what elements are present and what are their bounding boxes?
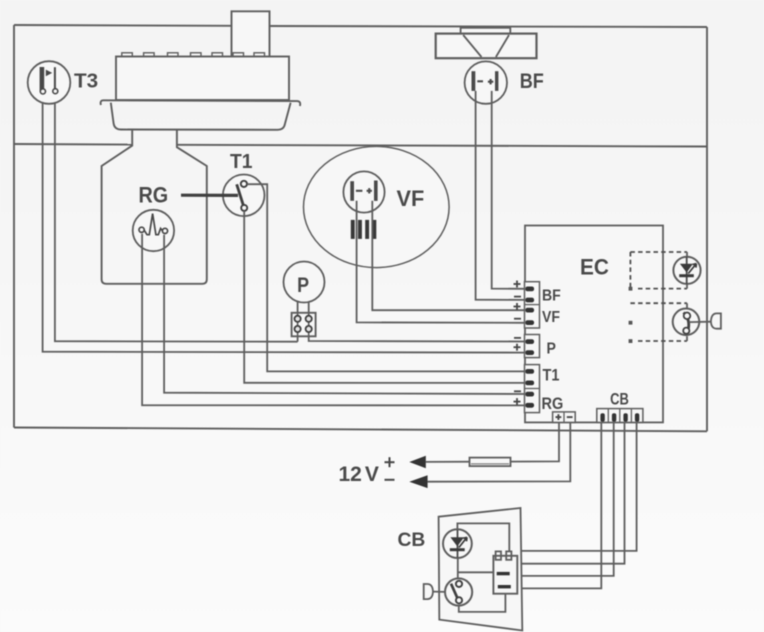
buzzer horn left [424,584,433,599]
control unit EC box [525,226,663,423]
svg-text:BF: BF [520,69,544,93]
svg-text:RG: RG [139,183,169,207]
LED indicator dashed link top [630,251,687,253]
evaporator body [116,57,289,101]
svg-text:P: P [297,274,309,298]
wire LED2 bottom to switch [457,558,459,579]
12V supply connector [553,412,576,423]
fan motor VF [343,171,384,212]
wire RG left to EC RG+ [142,234,525,406]
buzzer switch dashed link top [630,302,687,304]
compartment divider line [14,144,707,147]
pin sign P plus [514,344,521,351]
pin sign VF plus [514,303,521,310]
wire P left lead [297,302,299,313]
alarm switch S1 [673,309,700,336]
wire BF left to EC BF- [476,91,525,300]
fan motor BF [465,61,507,103]
svg-text:BF: BF [542,286,561,304]
LED indicator D1 [673,257,700,284]
pin sign RG plus [514,398,521,405]
wire VF right to EC VF+ [372,201,525,310]
wire CB1 [507,423,637,551]
arrow 12V minus [409,475,427,488]
wire P right lead [308,302,310,313]
control panel CB outline [439,508,523,631]
wire to buzzer [689,321,711,323]
connector block T1/RG [525,365,540,413]
VF vent grille bars [351,220,377,239]
LED indicator dashed link left [629,252,631,289]
sign 12V plus [385,457,395,467]
evaporator chimney [232,11,270,56]
wire CB3 [501,423,614,576]
wire 12V minus [428,422,571,481]
LED indicator D2 [443,529,472,558]
buzzer horn right [711,313,721,328]
node dot [629,321,633,325]
sensor T3 [28,61,71,104]
svg-text:T1: T1 [230,151,252,174]
wire branch to connector [458,571,494,573]
wire P block left down [297,336,299,341]
drip tray body [111,103,291,130]
wire LED bottom [686,284,688,289]
heater RG [133,210,174,251]
svg-text:RG: RG [542,395,564,413]
fan BF duct [436,28,537,58]
connector block P [525,335,540,358]
buzzer switch dashed link bottom [629,339,687,343]
wire CB2 [504,423,625,564]
wire VF left to EC VF- [357,201,525,323]
wire P block right to EC P- [309,336,525,341]
push switch S2 [445,578,472,605]
wire switch bottom [686,336,688,341]
wire LED top [686,252,688,256]
svg-text:VF: VF [542,308,560,326]
connector block BF/VF [525,282,540,328]
RG pointer line [181,194,238,197]
pin sign RG minus [514,390,521,392]
svg-text:CB: CB [610,391,629,409]
svg-text:T3: T3 [74,70,98,93]
wire RG right to EC RG- [164,235,525,394]
wire T1 top to EC T1a [247,184,525,371]
svg-text:P: P [547,339,556,357]
switch T1 [223,175,265,217]
svg-text:12V: 12V [339,463,379,486]
wire switch top [686,303,688,308]
wire buzzer2 [433,591,445,593]
pin sign BF plus [514,281,521,288]
connector CB panel [493,551,517,593]
evaporator fins (tabs) [122,53,265,57]
svg-text:T1: T1 [543,367,560,385]
pressure sensor P [284,262,325,303]
connector block CB [597,409,643,423]
wire T1 bottom to EC T1b [244,211,525,383]
svg-text:EC: EC [580,254,609,280]
pin sign BF minus [514,296,521,298]
pin sign P minus [514,337,521,339]
wire switch2 bottom loop [459,594,506,612]
wire 12V plus [426,422,559,462]
sign 12V minus [385,479,395,481]
drip tray lip [101,100,301,106]
svg-text:VF: VF [397,186,425,212]
fan VF shroud [304,146,450,267]
pin sign VF minus [514,318,521,320]
LED indicator dashed link bottom [629,287,687,291]
wire T3 left to EC P+ [43,94,525,352]
wire T3 right to connector P [55,94,298,342]
wire LED2 top loop [457,523,509,551]
air funnel (RG enclosure) [102,130,207,284]
wire BF right to EC BF+ [492,91,525,289]
enclosure border [14,25,707,431]
wire CB4 [501,423,601,589]
arrow 12V plus [409,456,426,469]
svg-text:CB: CB [398,530,426,551]
connector P block [292,313,316,337]
fuse F1 [470,458,511,467]
